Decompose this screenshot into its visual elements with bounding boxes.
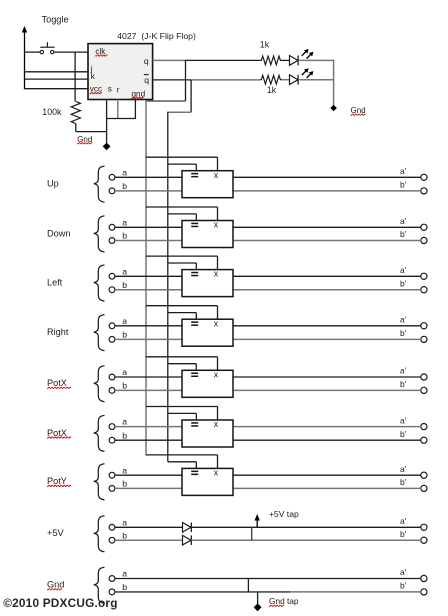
svg-text:q: q: [144, 56, 149, 66]
connector pin PotY.b': [421, 485, 427, 491]
U1 pin label vcc: [90, 85, 102, 94]
wire q-bar to resistor R3 (gray segment): [191, 79, 260, 81]
svg-text:b′: b′: [400, 278, 407, 288]
svg-text:x: x: [214, 369, 219, 379]
wire PotX.a to switch box: [115, 376, 182, 378]
svg-text:r: r: [117, 85, 120, 94]
connector pin PotX.a: [109, 374, 115, 380]
svg-text:b′: b′: [400, 429, 407, 439]
connector pin PotY.b: [109, 486, 115, 492]
ground diamond (U1 ground node): [103, 143, 111, 151]
analog switch box U7 (row 6): [182, 419, 233, 447]
wire q output (gray segment): [153, 59, 186, 61]
wire switch box to Down.b': [233, 240, 421, 242]
wire q bus feed to x pin (row 4): [146, 306, 218, 320]
resistor R2 1k: [260, 56, 282, 65]
wire switch box to Right.b': [233, 338, 421, 340]
wire s-r-gnd tie bar: [106, 118, 136, 120]
connector pin Gnd.a': [421, 575, 427, 581]
wire q-bar bus feed to = pin (row 4): [168, 313, 197, 320]
U1 pin label clk: [95, 47, 107, 56]
connector pin PotY.a: [109, 472, 115, 478]
wire R2 to LED D1: [282, 59, 290, 61]
svg-text:a′: a′: [400, 216, 407, 226]
wire Gnd.b (gray segment): [290, 591, 421, 593]
svg-text:+5V tap: +5V tap: [269, 509, 299, 519]
svg-text:b: b: [122, 381, 127, 391]
wire clk to resistor R1: [74, 52, 76, 101]
analog switch box U4 (row 3): [182, 269, 233, 297]
brace row 8: [94, 516, 105, 552]
LED D1: [290, 49, 314, 65]
connector pin Right.a: [109, 323, 115, 329]
wire clk net: switch to U1 clk pin: [54, 51, 89, 53]
svg-text:q: q: [144, 75, 149, 85]
svg-text:a: a: [122, 517, 127, 527]
connector pin PotX.a': [421, 374, 427, 380]
wire j net: rail to U1 j pin: [24, 71, 89, 73]
connector pin PotX.b': [421, 437, 427, 443]
wire R3 to LED D2: [282, 79, 290, 81]
label Gnd tap: [269, 596, 299, 606]
wire q-bar output (black segment): [153, 79, 192, 81]
svg-text:a: a: [122, 167, 127, 177]
svg-text:b: b: [122, 181, 127, 191]
connector pin Down.a: [109, 224, 115, 230]
connector pin Right.b': [421, 336, 427, 342]
analog switch box U8 (row 7): [182, 468, 233, 496]
svg-text:Gnd tap: Gnd tap: [269, 596, 299, 606]
wire q bus feed to x pin (row 1): [146, 157, 218, 171]
wire Up.b to switch box: [115, 190, 182, 192]
svg-text:x: x: [214, 220, 219, 230]
svg-text:b′: b′: [400, 529, 407, 539]
svg-text:b′: b′: [400, 477, 407, 487]
U1 pin label gnd: [132, 90, 146, 99]
resistor R1 100k: [71, 101, 80, 123]
wire PotY.b to switch box: [115, 487, 182, 489]
wire Gnd.b (dark segment): [115, 591, 290, 593]
svg-text:a′: a′: [400, 166, 407, 176]
svg-text:b′: b′: [400, 379, 407, 389]
wire PotY.a to switch box: [115, 474, 182, 476]
wire q drop to gray bus: [146, 60, 186, 101]
U1 r pin wire: [117, 100, 119, 119]
connector pin PotX.b: [109, 437, 115, 443]
wire q-bar bus feed to = pin (row 7): [168, 462, 197, 469]
brace row 3: [94, 265, 105, 301]
connector pin +5V.b: [109, 537, 115, 543]
node Gnd row label: [47, 580, 64, 590]
svg-text:a: a: [122, 316, 127, 326]
wire LED ground drop: [333, 60, 335, 105]
wire PotX.b to switch box: [115, 389, 182, 391]
brace row 9: [94, 567, 105, 603]
brace row 6: [94, 415, 105, 451]
connector pin Down.a': [421, 224, 427, 230]
wire D2 cathode to ground: [299, 79, 334, 81]
svg-text:b: b: [122, 231, 127, 241]
wire k net: rail to U1 k pin: [24, 78, 89, 80]
wire Gnd a-b junction: [247, 579, 249, 592]
svg-text:s: s: [108, 85, 112, 94]
node PotY row label: [47, 476, 71, 486]
ground diamond (LED ground): [330, 105, 337, 112]
wire q bus feed to x pin (row 3): [146, 256, 218, 270]
wire Left.b to switch box: [115, 289, 182, 291]
wire switch box to PotX.b': [233, 389, 421, 391]
wire q bus feed to x pin (row 7): [146, 455, 218, 469]
wire Gnd tap stub: [257, 592, 259, 604]
svg-text:a′: a′: [400, 516, 407, 526]
connector pin PotX.b': [421, 387, 427, 393]
gray bus (q net vertical): [145, 100, 147, 455]
wire +5V.b left segment: [115, 539, 182, 541]
wire vcc net: rail to U1 vcc pin: [24, 88, 89, 90]
svg-text:x: x: [214, 468, 219, 478]
brace row 7: [94, 464, 105, 500]
connector pin Right.a': [421, 323, 427, 329]
svg-text:a: a: [122, 569, 127, 579]
wire q-bar bus feed to = pin (row 2): [168, 214, 197, 221]
svg-text:Toggle: Toggle: [42, 15, 69, 25]
wire Left.a to switch box: [115, 275, 182, 277]
svg-text:a′: a′: [400, 265, 407, 275]
node PotX row label: [47, 428, 71, 438]
wire +5V.a right segment: [191, 526, 421, 528]
svg-text:b′: b′: [400, 581, 407, 591]
svg-text:PotY: PotY: [47, 476, 67, 486]
connector pin PotX.b: [109, 388, 115, 394]
connector pin Down.b': [421, 237, 427, 243]
wire q-bar bus feed to = pin (row 1): [168, 164, 197, 171]
svg-text:a: a: [122, 367, 127, 377]
wire switch box to Up.a': [233, 176, 421, 178]
svg-text:1k: 1k: [267, 85, 277, 95]
svg-text:b: b: [122, 430, 127, 440]
+5V tap arrow: [255, 514, 260, 527]
label Gnd (under R1): [77, 135, 92, 144]
svg-text:x: x: [214, 318, 219, 328]
svg-text:b′: b′: [400, 328, 407, 338]
wire switch box to PotX.a': [233, 376, 421, 378]
svg-text:Left: Left: [47, 277, 63, 287]
wire switch box to Down.a': [233, 226, 421, 228]
wire switch box to Left.b': [233, 289, 421, 291]
connector pin Left.b': [421, 287, 427, 293]
wire Down.b to switch box: [115, 240, 182, 242]
svg-text:PotX: PotX: [47, 428, 67, 438]
svg-text:b′: b′: [400, 229, 407, 239]
label Gnd (LED ground): [351, 106, 366, 115]
brace row 2: [94, 216, 105, 252]
brace row 1: [94, 166, 105, 202]
node PotX row label: [47, 378, 71, 388]
svg-text:a′: a′: [400, 567, 407, 577]
wire switch box to Left.a': [233, 275, 421, 277]
wire q-bar bus feed to = pin (row 6): [168, 413, 197, 420]
wire +5V.a left segment: [115, 526, 182, 528]
wire q-bar bus feed to = pin (row 5): [168, 364, 197, 371]
connector pin Up.b: [109, 188, 115, 194]
analog switch box U5 (row 4): [182, 318, 233, 346]
wire +5V.b right segment: [191, 539, 421, 541]
wire clk net: rail to switch: [25, 51, 41, 53]
ground diamond (Gnd tap): [254, 603, 262, 611]
connector pin Gnd.b: [109, 589, 115, 595]
svg-text:x: x: [214, 419, 219, 429]
connector pin PotY.a': [421, 472, 427, 478]
black bus (q-bar net vertical): [167, 112, 169, 462]
analog switch box U6 (row 5): [182, 369, 233, 397]
U1 pin label q-bar: [144, 75, 149, 86]
diode D4: [183, 535, 192, 545]
wire q output to resistor R2: [185, 59, 260, 61]
wire Down.a to switch box: [115, 226, 182, 228]
U1 gnd pin wire: [134, 100, 136, 119]
wire q-bar bus feed to = pin (row 3): [168, 263, 197, 270]
connector pin PotX.a: [109, 424, 115, 430]
svg-text:b: b: [122, 330, 127, 340]
connector pin Up.b': [421, 188, 427, 194]
wire switch box to PotY.a': [233, 474, 421, 476]
svg-text:x: x: [214, 170, 219, 180]
svg-text:a: a: [122, 266, 127, 276]
svg-text:a: a: [122, 217, 127, 227]
svg-text:Down: Down: [47, 228, 71, 238]
connector pin Gnd.b': [421, 589, 427, 595]
connector pin Left.b: [109, 287, 115, 293]
connector pin +5V.a': [421, 524, 427, 530]
LED D2: [290, 68, 314, 84]
svg-text:PotX: PotX: [47, 378, 67, 388]
connector pin +5V.b': [421, 537, 427, 543]
svg-text:4027 (J-K Flip Flop): 4027 (J-K Flip Flop): [117, 31, 196, 41]
wire R1 bottom to ground node: [76, 124, 107, 132]
svg-text:+5V: +5V: [47, 528, 64, 538]
wire q-bar drop to black bus: [168, 80, 191, 112]
svg-text:a′: a′: [400, 315, 407, 325]
svg-text:b: b: [122, 479, 127, 489]
wire D1 cathode to ground: [299, 59, 334, 61]
wire Up.a to switch box: [115, 176, 182, 178]
connector pin Down.b: [109, 238, 115, 244]
wire q bus feed to x pin (row 5): [146, 357, 218, 371]
pushbutton switch S1: [40, 42, 55, 54]
connector pin Gnd.a: [109, 576, 115, 582]
wire +5V a-b junction: [251, 527, 253, 540]
connector pin Up.a': [421, 174, 427, 180]
connector pin PotX.a': [421, 424, 427, 430]
svg-text:100k: 100k: [42, 107, 62, 117]
connector pin Right.b: [109, 337, 115, 343]
wire switch box to Up.b': [233, 190, 421, 192]
power arrow (supply rail): [22, 26, 27, 89]
svg-text:b: b: [122, 530, 127, 540]
wire Gnd.a: [115, 578, 421, 580]
svg-text:1k: 1k: [260, 40, 270, 50]
wire switch box to Right.a': [233, 325, 421, 327]
wire q bus feed to x pin (row 6): [146, 407, 218, 421]
connector pin Up.a: [109, 174, 115, 180]
svg-text:a: a: [122, 417, 127, 427]
svg-text:Up: Up: [47, 179, 59, 189]
U1 s pin wire down to ground diamond: [106, 100, 108, 144]
svg-text:x: x: [214, 269, 219, 279]
svg-text:a′: a′: [400, 366, 407, 376]
wire Right.a to switch box: [115, 325, 182, 327]
svg-text:a: a: [122, 465, 127, 475]
brace row 5: [94, 366, 105, 402]
wire q bus feed to x pin (row 2): [146, 207, 218, 221]
svg-text:Right: Right: [47, 327, 69, 337]
analog switch box U2 (row 1): [182, 170, 233, 198]
wire PotX.b to switch box: [115, 439, 182, 441]
svg-text:b: b: [122, 280, 127, 290]
brace row 4: [94, 315, 105, 351]
wire switch box to PotX.b': [233, 439, 421, 441]
wire switch box to PotY.b': [233, 487, 421, 489]
wire Right.b to switch box: [115, 338, 182, 340]
connector pin +5V.a: [109, 524, 115, 530]
svg-text:b: b: [122, 582, 127, 592]
connector pin Left.a: [109, 273, 115, 279]
wire switch box to PotX.a': [233, 426, 421, 428]
svg-text:Gnd: Gnd: [47, 580, 64, 590]
IC U1 4027 J-K flip flop body: [88, 44, 153, 100]
svg-text:a′: a′: [400, 415, 407, 425]
resistor R3 1k: [260, 75, 282, 84]
svg-text:b′: b′: [400, 180, 407, 190]
svg-text:©2010 PDXCUG.org: ©2010 PDXCUG.org: [3, 596, 117, 610]
analog switch box U3 (row 2): [182, 220, 233, 248]
diode D3: [183, 523, 192, 533]
svg-text:a′: a′: [400, 464, 407, 474]
wire PotX.a to switch box: [115, 426, 182, 428]
connector pin Left.a': [421, 273, 427, 279]
